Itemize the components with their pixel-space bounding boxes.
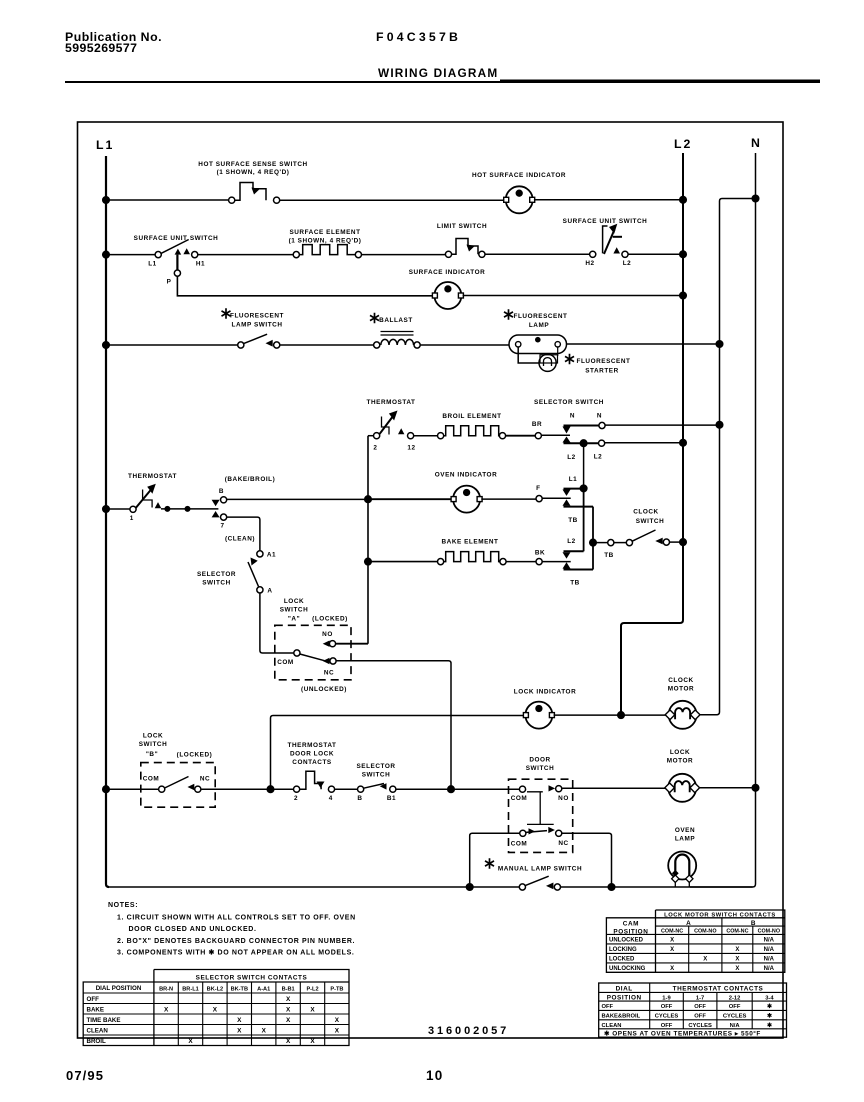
svg-text:SWITCH: SWITCH: [139, 741, 168, 748]
thermostat table sub headers: [662, 995, 774, 1001]
selector switch B contact: [358, 786, 364, 792]
selector switch B blade: [364, 784, 384, 789]
lock switch A blade: [300, 654, 325, 661]
svg-text:L2: L2: [567, 454, 576, 461]
svg-text:X: X: [286, 1038, 291, 1045]
lock switch B blade: [165, 777, 189, 789]
svg-text:X: X: [213, 1007, 218, 1014]
svg-text:CLOCK: CLOCK: [633, 509, 658, 516]
wire clock motor to N branch: [699, 714, 717, 716]
svg-text:TB: TB: [568, 517, 578, 524]
selector TB vertical: [592, 507, 594, 570]
svg-text:OVEN: OVEN: [675, 827, 695, 834]
svg-text:BALLAST: BALLAST: [379, 317, 413, 324]
lock motor table outer frame: [606, 910, 784, 972]
svg-text:COM-NO: COM-NO: [694, 928, 716, 934]
TB terminal: [608, 540, 614, 546]
svg-text:L2: L2: [674, 137, 692, 151]
svg-text:LOCK MOTOR SWITCH CONTACTS: LOCK MOTOR SWITCH CONTACTS: [664, 913, 776, 919]
wire lock indicator to L2 drop: [554, 714, 621, 716]
junction L1-row3: [103, 342, 110, 349]
selector switch B1 contact: [390, 786, 396, 792]
surface unit switch P-arm arrow: [175, 249, 182, 255]
svg-text:MOTOR: MOTOR: [668, 686, 694, 693]
L2 bus: [621, 153, 683, 715]
svg-text:HOT SURFACE INDICATOR: HOT SURFACE INDICATOR: [472, 172, 566, 179]
contact 7 arrow: [212, 511, 220, 517]
junction bottom row-lockA NC drop: [448, 786, 455, 793]
svg-text:F: F: [536, 485, 540, 492]
door switch upper NO terminal: [556, 786, 562, 792]
svg-text:SURFACE UNIT SWITCH: SURFACE UNIT SWITCH: [563, 218, 648, 225]
svg-text:POSITION: POSITION: [607, 995, 642, 1002]
lock motor table row labels: [609, 938, 646, 973]
svg-text:✱: ✱: [767, 1022, 772, 1029]
wire to thermostat: [106, 508, 130, 510]
svg-text:P-L2: P-L2: [306, 987, 318, 993]
hot surface indicator: [504, 186, 535, 213]
ballast label: [370, 313, 379, 323]
svg-text:LOCK: LOCK: [670, 749, 690, 756]
manual lamp switch label: [485, 858, 494, 868]
svg-text:DOOR: DOOR: [529, 757, 550, 764]
svg-text:(LOCKED): (LOCKED): [312, 616, 348, 623]
surface unit switch H1 terminal: [192, 252, 198, 258]
junction L1-row2: [103, 251, 110, 258]
svg-text:CLEAN: CLEAN: [602, 1023, 622, 1029]
svg-text:X: X: [310, 1038, 315, 1045]
svg-text:✱: ✱: [767, 1003, 772, 1010]
svg-text:X: X: [237, 1028, 242, 1035]
svg-text:LAMP SWITCH: LAMP SWITCH: [231, 322, 282, 329]
wire N contact to N branch: [605, 424, 719, 426]
P branch drop: [177, 276, 434, 296]
junction L1-bottom main row: [103, 786, 110, 793]
door switch lower COM terminal: [520, 830, 526, 836]
surface unit switch H1 arrow: [183, 248, 190, 254]
svg-text:BR-L1: BR-L1: [182, 987, 198, 993]
svg-text:(LOCKED): (LOCKED): [177, 752, 213, 759]
lock switch B NC arrow: [188, 784, 195, 790]
svg-text:4: 4: [329, 795, 333, 802]
svg-text:X: X: [188, 1038, 193, 1045]
svg-text:X: X: [670, 966, 674, 972]
svg-text:L2: L2: [567, 538, 576, 545]
door switch lower NC terminal: [556, 830, 562, 836]
svg-text:BK-L2: BK-L2: [207, 987, 223, 993]
broil thermostat blade: [379, 416, 393, 435]
junction L2-clock row: [680, 539, 687, 546]
svg-text:"A": "A": [288, 616, 300, 623]
svg-text:NO: NO: [558, 795, 569, 802]
P terminal: [174, 270, 180, 276]
svg-text:COM: COM: [511, 795, 528, 802]
svg-text:(BAKE/BROIL): (BAKE/BROIL): [225, 476, 276, 483]
svg-text:TB: TB: [570, 580, 580, 587]
fluorescent starter connection left: [518, 348, 539, 364]
svg-text:NC: NC: [324, 670, 334, 677]
fluorescent lamp: [509, 335, 567, 354]
header rule: [65, 81, 820, 83]
selector table row lines: [83, 993, 349, 1035]
junction N-branch top: [752, 195, 759, 202]
surface unit switch right thermal blade: [603, 226, 608, 253]
svg-text:MANUAL LAMP SWITCH: MANUAL LAMP SWITCH: [498, 866, 582, 873]
lock motor table data: [670, 938, 775, 973]
broil thermostat arrow 12: [398, 428, 404, 434]
bottom lamp row wire right: [561, 886, 753, 888]
lock indicator: [523, 702, 554, 729]
svg-text:SWITCH: SWITCH: [526, 765, 555, 772]
svg-text:P: P: [167, 279, 172, 286]
svg-text:SELECTOR: SELECTOR: [356, 763, 395, 770]
svg-text:(1 SHOWN, 4 REQ'D): (1 SHOWN, 4 REQ'D): [289, 238, 362, 245]
svg-text:X: X: [286, 996, 291, 1003]
svg-text:SWITCH: SWITCH: [636, 518, 665, 525]
svg-text:✱ OPENS AT OVEN TEMPERATURES: ✱ OPENS AT OVEN TEMPERATURES ▸ 550°F: [604, 1030, 761, 1038]
svg-text:A1: A1: [267, 552, 276, 559]
door switch lower COM feed: [470, 833, 523, 887]
svg-text:LOCKING: LOCKING: [609, 947, 637, 953]
selector table outer frame: [83, 970, 349, 1046]
clean contact wire: [227, 517, 260, 551]
svg-text:OFF: OFF: [661, 1023, 673, 1029]
svg-text:POSITION: POSITION: [613, 929, 648, 936]
lock switch B COM terminal: [159, 786, 165, 792]
svg-text:X: X: [310, 1007, 315, 1014]
svg-text:THERMOSTAT CONTACTS: THERMOSTAT CONTACTS: [673, 986, 764, 993]
svg-text:NC: NC: [200, 776, 210, 783]
wire row4 to BR: [506, 435, 536, 437]
svg-text:N: N: [751, 136, 760, 150]
svg-text:F04C357B: F04C357B: [376, 30, 461, 44]
svg-text:X: X: [670, 938, 674, 944]
wire lock motor to N: [699, 787, 756, 789]
oven lamp: [668, 852, 696, 880]
selector L2 drop continues: [583, 488, 585, 551]
selector table column lines: [178, 982, 324, 1046]
svg-text:X: X: [703, 957, 707, 963]
broil element: [438, 433, 444, 439]
thermostat common blade wire: [161, 508, 218, 510]
svg-text:L2: L2: [594, 454, 603, 461]
svg-text:COM: COM: [277, 659, 294, 666]
svg-text:LIMIT SWITCH: LIMIT SWITCH: [437, 223, 487, 230]
svg-text:NO: NO: [322, 631, 333, 638]
surface unit switch blade: [161, 240, 189, 254]
wire bake to BK: [506, 561, 536, 563]
svg-text:A: A: [686, 920, 691, 927]
svg-text:CONTACTS: CONTACTS: [292, 759, 332, 766]
thermostat door lock contact 2: [294, 786, 300, 792]
svg-text:TB: TB: [604, 552, 614, 559]
selector table row labels: [87, 996, 121, 1045]
junction L1-thermostat row: [103, 506, 110, 513]
svg-text:X: X: [237, 1017, 242, 1024]
selector L2 feed vertical: [583, 443, 585, 488]
svg-text:3-4: 3-4: [765, 995, 774, 1001]
svg-text:OFF: OFF: [661, 1004, 673, 1010]
wire row1 middle: [280, 199, 505, 201]
fluorescent lamp switch label: [222, 308, 231, 318]
svg-text:BAKE&BROIL: BAKE&BROIL: [602, 1014, 641, 1020]
svg-text:THERMOSTAT: THERMOSTAT: [128, 473, 177, 480]
N branch vertical: [697, 199, 756, 715]
surface indicator: [432, 282, 463, 309]
svg-text:N: N: [570, 413, 575, 420]
svg-text:H2: H2: [585, 260, 594, 267]
clock switch: [614, 542, 626, 544]
BK blade wire: [542, 561, 571, 563]
A1 terminal: [257, 551, 263, 557]
wire L1 to lock switch B: [106, 788, 159, 790]
oven thermostat terminal 1: [130, 506, 136, 512]
surface unit switch right L2 arrow: [613, 247, 620, 253]
svg-text:OFF: OFF: [694, 1014, 706, 1020]
svg-text:L1: L1: [148, 261, 157, 268]
selector table column headers: [96, 985, 344, 993]
svg-text:10: 10: [426, 1068, 443, 1083]
wire door NC right and down: [562, 833, 612, 887]
svg-text:SWITCH: SWITCH: [280, 607, 309, 614]
svg-text:SWITCH: SWITCH: [362, 772, 391, 779]
svg-text:WIRING DIAGRAM: WIRING DIAGRAM: [378, 66, 498, 80]
wire row2 right to L2: [628, 253, 683, 255]
svg-text:OFF: OFF: [729, 1004, 741, 1010]
broil thermostat feed from bus: [368, 435, 374, 437]
svg-text:OFF: OFF: [87, 996, 100, 1003]
wire row3 right to N branch: [567, 343, 720, 345]
svg-text:B: B: [751, 920, 756, 927]
lock motor: [665, 774, 700, 802]
wire to selector: [335, 788, 358, 790]
svg-text:H1: H1: [196, 261, 205, 268]
wire door NO to lock motor: [562, 787, 666, 789]
svg-text:BR-N: BR-N: [159, 987, 173, 993]
svg-text:COM: COM: [143, 776, 160, 783]
door switch upper NO arrow: [549, 785, 556, 791]
svg-text:DOOR CLOSED AND UNLOCKED.: DOOR CLOSED AND UNLOCKED.: [129, 926, 257, 933]
surface unit switch right H2 terminal: [590, 251, 596, 257]
svg-text:X: X: [670, 947, 674, 953]
svg-text:CYCLES: CYCLES: [723, 1014, 747, 1020]
broil thermostat terminal 12: [408, 433, 414, 439]
svg-text:2. BO"X" DENOTES BACKGUARD CO: 2. BO"X" DENOTES BACKGUARD CONNECTOR PIN…: [117, 938, 355, 945]
fluorescent lamp label: [504, 309, 513, 319]
lock motor table sub columns: [689, 926, 753, 972]
wire L2 contact to L2 bus: [605, 442, 683, 444]
selector switch B1 arrow: [380, 783, 387, 789]
svg-text:OFF: OFF: [602, 1004, 614, 1010]
svg-text:COM-NO: COM-NO: [758, 928, 780, 934]
lock switch A NO terminal: [329, 641, 335, 647]
svg-text:5995269577: 5995269577: [65, 41, 137, 55]
contact B arrow: [212, 500, 220, 506]
svg-text:B: B: [357, 795, 362, 802]
svg-text:COM: COM: [511, 841, 528, 848]
lock switch A NC wire right and down: [336, 661, 451, 790]
A terminal: [257, 587, 263, 593]
svg-text:FLUORESCENT: FLUORESCENT: [230, 313, 284, 320]
svg-text:UNLOCKED: UNLOCKED: [609, 938, 644, 944]
svg-text:DIAL POSITION: DIAL POSITION: [96, 985, 142, 992]
junction TB vertical-clock row: [590, 539, 597, 546]
svg-text:X: X: [735, 966, 739, 972]
lock switch A NO wire to bus: [336, 643, 368, 645]
wire row2 mid1: [198, 254, 293, 256]
wire row2 mid2: [362, 254, 446, 256]
svg-text:DIAL: DIAL: [616, 986, 633, 993]
svg-text:MOTOR: MOTOR: [667, 758, 693, 765]
junction N-lock motor: [752, 785, 759, 792]
svg-text:A: A: [267, 588, 272, 595]
wire row1 right to L2: [534, 199, 683, 201]
svg-text:N/A: N/A: [764, 938, 775, 944]
svg-text:07/95: 07/95: [66, 1068, 104, 1083]
wire B1 to door switch: [396, 788, 520, 790]
door switch lower blade: [526, 831, 547, 833]
svg-text:COM-NC: COM-NC: [726, 928, 748, 934]
svg-text:L1: L1: [96, 138, 114, 152]
svg-text:316002057: 316002057: [428, 1025, 509, 1037]
junction bus-oven row: [365, 496, 372, 503]
lock motor table A/B row: [606, 926, 784, 934]
svg-text:(UNLOCKED): (UNLOCKED): [301, 686, 347, 693]
junction L2drop-lockind row: [618, 712, 625, 719]
surface element: [293, 252, 299, 258]
selector table X marks: [164, 996, 340, 1045]
svg-text:A-A1: A-A1: [257, 987, 270, 993]
fluorescent starter connection right: [557, 348, 559, 357]
wire to oven indicator: [368, 498, 453, 500]
svg-text:L1: L1: [569, 476, 578, 483]
thermostat table lines: [599, 983, 787, 1029]
selector BK lower arm (TB): [563, 562, 571, 568]
wire row3 left: [106, 344, 238, 346]
svg-text:X: X: [335, 1028, 340, 1035]
svg-text:1-9: 1-9: [662, 995, 671, 1001]
selector contact BR-N arm: [564, 425, 599, 427]
svg-text:3. COMPONENTS WITH ✱ DO NOT: 3. COMPONENTS WITH ✱ DO NOT APPEAR ON AL…: [117, 949, 354, 957]
backguard connector pin dot 2: [185, 506, 191, 512]
surface unit switch L1 terminal: [155, 252, 161, 258]
oven indicator: [451, 486, 482, 513]
N bus: [690, 153, 756, 887]
backguard connector pin dot 1: [164, 506, 170, 512]
fluorescent lamp switch: [238, 342, 244, 348]
schematic border frame: [78, 122, 784, 1038]
lock switch A NC arrow: [323, 658, 330, 664]
BK terminal: [536, 559, 542, 565]
wire clock switch to L2: [670, 541, 684, 543]
wire to TB terminal: [593, 542, 608, 544]
wire row2 left: [106, 254, 155, 256]
svg-text:B-B1: B-B1: [282, 987, 295, 993]
svg-text:BAKE: BAKE: [87, 1007, 105, 1014]
svg-text:BK-TB: BK-TB: [231, 987, 248, 993]
bottom lamp row wire: [109, 886, 519, 888]
svg-text:LAMP: LAMP: [675, 836, 695, 843]
svg-text:BROIL ELEMENT: BROIL ELEMENT: [442, 413, 501, 420]
svg-text:THERMOSTAT: THERMOSTAT: [367, 399, 416, 406]
svg-text:COM-NC: COM-NC: [661, 928, 683, 934]
svg-text:LOCKED: LOCKED: [609, 957, 635, 963]
selector switch A blade: [248, 562, 259, 587]
wire row3 mid2: [420, 344, 510, 346]
svg-text:1-7: 1-7: [696, 995, 704, 1001]
fluorescent starter: [539, 354, 556, 371]
junction L2-row4b: [680, 440, 687, 447]
svg-text:B: B: [219, 488, 224, 495]
svg-text:N: N: [597, 413, 602, 420]
svg-text:SWITCH: SWITCH: [202, 580, 231, 587]
junction L2-row1: [680, 197, 687, 204]
lock switch B NC terminal: [195, 786, 201, 792]
svg-text:2: 2: [294, 795, 298, 802]
ballast: [374, 342, 380, 348]
thermostat table outer frame: [599, 983, 787, 1037]
svg-text:NOTES:: NOTES:: [108, 902, 138, 909]
svg-text:X: X: [262, 1028, 267, 1035]
oven thermostat arrow: [155, 502, 162, 508]
svg-text:LOCK INDICATOR: LOCK INDICATOR: [514, 689, 577, 696]
wire row1 left: [106, 199, 229, 201]
svg-text:2-12: 2-12: [729, 995, 741, 1001]
svg-text:OVEN INDICATOR: OVEN INDICATOR: [435, 472, 498, 479]
svg-text:X: X: [735, 957, 739, 963]
lock switch A dashed box: [275, 625, 351, 680]
wire lock B to junction: [201, 788, 294, 790]
svg-text:X: X: [286, 1017, 291, 1024]
svg-text:X: X: [286, 1007, 291, 1014]
svg-text:(CLEAN): (CLEAN): [225, 536, 255, 543]
P branch wire: [176, 255, 178, 270]
junction L2-row2: [680, 251, 687, 258]
svg-text:SURFACE ELEMENT: SURFACE ELEMENT: [289, 229, 360, 236]
svg-text:L2: L2: [623, 260, 632, 267]
wire row4 mid: [414, 435, 438, 437]
svg-text:BR: BR: [532, 421, 542, 428]
svg-text:1. CIRCUIT SHOWN WITH ALL CON: 1. CIRCUIT SHOWN WITH ALL CONTROLS SET T…: [117, 915, 356, 922]
bake element: [438, 559, 444, 565]
selector contact BR-L2 arm: [563, 437, 571, 443]
wire row2 mid3: [485, 253, 590, 255]
fluorescent starter label: [565, 354, 574, 364]
svg-text:CLEAN: CLEAN: [87, 1028, 109, 1035]
svg-text:12: 12: [407, 445, 415, 452]
svg-text:LOCK: LOCK: [143, 733, 163, 740]
A wire down to lock switch A: [260, 593, 294, 653]
svg-text:N/A: N/A: [764, 966, 775, 972]
svg-text:N/A: N/A: [764, 957, 775, 963]
svg-text:CYCLES: CYCLES: [688, 1023, 712, 1029]
selector F upper arm (L2 feed): [563, 490, 571, 496]
svg-text:BAKE ELEMENT: BAKE ELEMENT: [441, 539, 498, 546]
svg-text:2: 2: [373, 445, 377, 452]
junction bus-bake row: [365, 558, 372, 565]
junction L2-row2b: [680, 292, 687, 299]
junction Nbranch-row3: [716, 341, 723, 348]
svg-text:SURFACE INDICATOR: SURFACE INDICATOR: [409, 269, 486, 276]
lock motor table row lines: [606, 944, 784, 963]
svg-text:1: 1: [130, 515, 134, 522]
svg-text:CYCLES: CYCLES: [655, 1014, 679, 1020]
junction Nbranch-row4: [716, 422, 723, 429]
broil thermostat terminal 2: [374, 433, 380, 439]
limit switch: [445, 251, 451, 257]
svg-text:SURFACE UNIT SWITCH: SURFACE UNIT SWITCH: [134, 235, 219, 242]
svg-text:(1 SHOWN, 4 REQ'D): (1 SHOWN, 4 REQ'D): [217, 169, 290, 176]
